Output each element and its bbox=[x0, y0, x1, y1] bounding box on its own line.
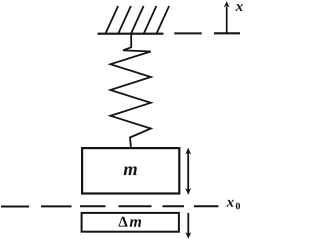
ceiling hatch 5 bbox=[156, 6, 169, 35]
dashed equilibrium line x0 bbox=[1, 205, 219, 207]
label delta m bbox=[119, 217, 128, 227]
x axis baseline bbox=[214, 32, 240, 34]
ceiling hatch 3 bbox=[131, 6, 144, 35]
label x0 bbox=[226, 200, 233, 207]
spring bbox=[110, 34, 150, 149]
ceiling hatch 4 bbox=[143, 6, 156, 35]
x axis vertical line bbox=[226, 7, 228, 34]
ceiling hatch 2 bbox=[118, 6, 131, 35]
double arrow right of mass bbox=[185, 148, 191, 195]
ceiling bbox=[98, 33, 164, 35]
x axis label x bbox=[236, 4, 243, 11]
label m bbox=[124, 166, 137, 175]
delta-m block bbox=[82, 213, 179, 232]
ceiling hatch 1 bbox=[105, 6, 118, 35]
mass m block bbox=[82, 148, 179, 193]
x axis arrowhead bbox=[224, 1, 230, 7]
down arrow below x0 line bbox=[185, 213, 191, 239]
dashed reference line at ceiling level bbox=[174, 32, 201, 34]
